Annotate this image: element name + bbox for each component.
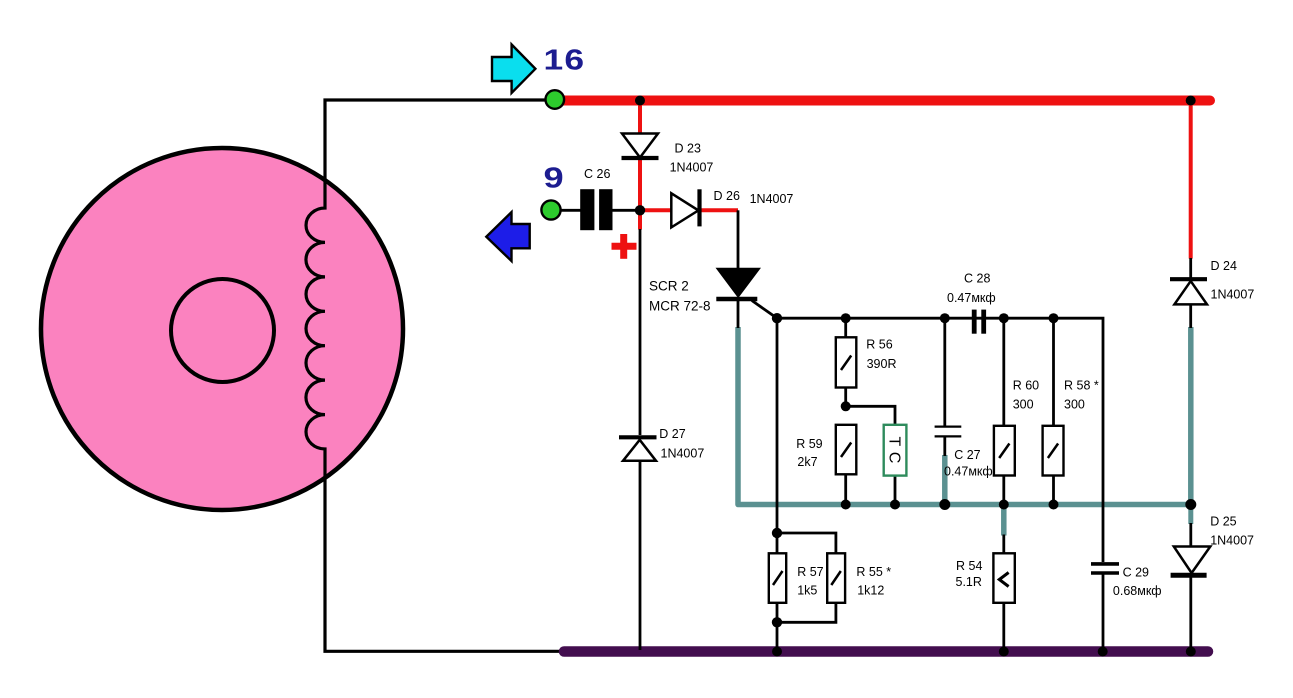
svg-text:R 56: R 56 <box>866 338 892 352</box>
svg-text:R 54: R 54 <box>956 559 982 573</box>
svg-text:C 28: C 28 <box>964 272 990 286</box>
svg-text:1k12: 1k12 <box>857 584 884 598</box>
svg-text:1N4007: 1N4007 <box>670 161 714 175</box>
svg-text:300: 300 <box>1064 398 1085 412</box>
svg-text:1N4007: 1N4007 <box>1211 288 1255 302</box>
svg-text:1N4007: 1N4007 <box>661 446 705 460</box>
svg-text:C 27: C 27 <box>954 448 980 462</box>
svg-text:9: 9 <box>544 161 565 194</box>
svg-text:R 60: R 60 <box>1013 379 1039 393</box>
svg-text:D 26: D 26 <box>714 189 740 203</box>
svg-text:MCR 72-8: MCR 72-8 <box>649 299 711 314</box>
svg-text:0.47мкф: 0.47мкф <box>944 465 993 479</box>
svg-text:16: 16 <box>544 44 586 76</box>
svg-text:C 26: C 26 <box>584 167 610 181</box>
svg-text:SCR 2: SCR 2 <box>649 279 689 294</box>
svg-text:C 29: C 29 <box>1123 566 1149 580</box>
svg-text:D 24: D 24 <box>1211 259 1237 273</box>
svg-text:1N4007: 1N4007 <box>1210 534 1254 548</box>
svg-text:1k5: 1k5 <box>797 584 817 598</box>
svg-text:R 55 *: R 55 * <box>856 565 891 579</box>
svg-text:D 23: D 23 <box>675 142 701 156</box>
svg-text:ТС: ТС <box>885 437 902 469</box>
svg-text:D 25: D 25 <box>1210 515 1236 529</box>
svg-text:0.47мкф: 0.47мкф <box>947 291 996 305</box>
svg-text:1N4007: 1N4007 <box>750 192 794 206</box>
svg-text:390R: 390R <box>867 357 897 371</box>
svg-text:5.1R: 5.1R <box>956 575 982 589</box>
svg-text:300: 300 <box>1013 398 1034 412</box>
svg-text:R 58 *: R 58 * <box>1064 379 1099 393</box>
svg-text:2k7: 2k7 <box>797 455 817 469</box>
svg-text:D 27: D 27 <box>659 427 685 441</box>
svg-text:R 59: R 59 <box>796 437 822 451</box>
svg-text:R 57: R 57 <box>797 565 823 579</box>
svg-text:0.68мкф: 0.68мкф <box>1113 584 1162 598</box>
